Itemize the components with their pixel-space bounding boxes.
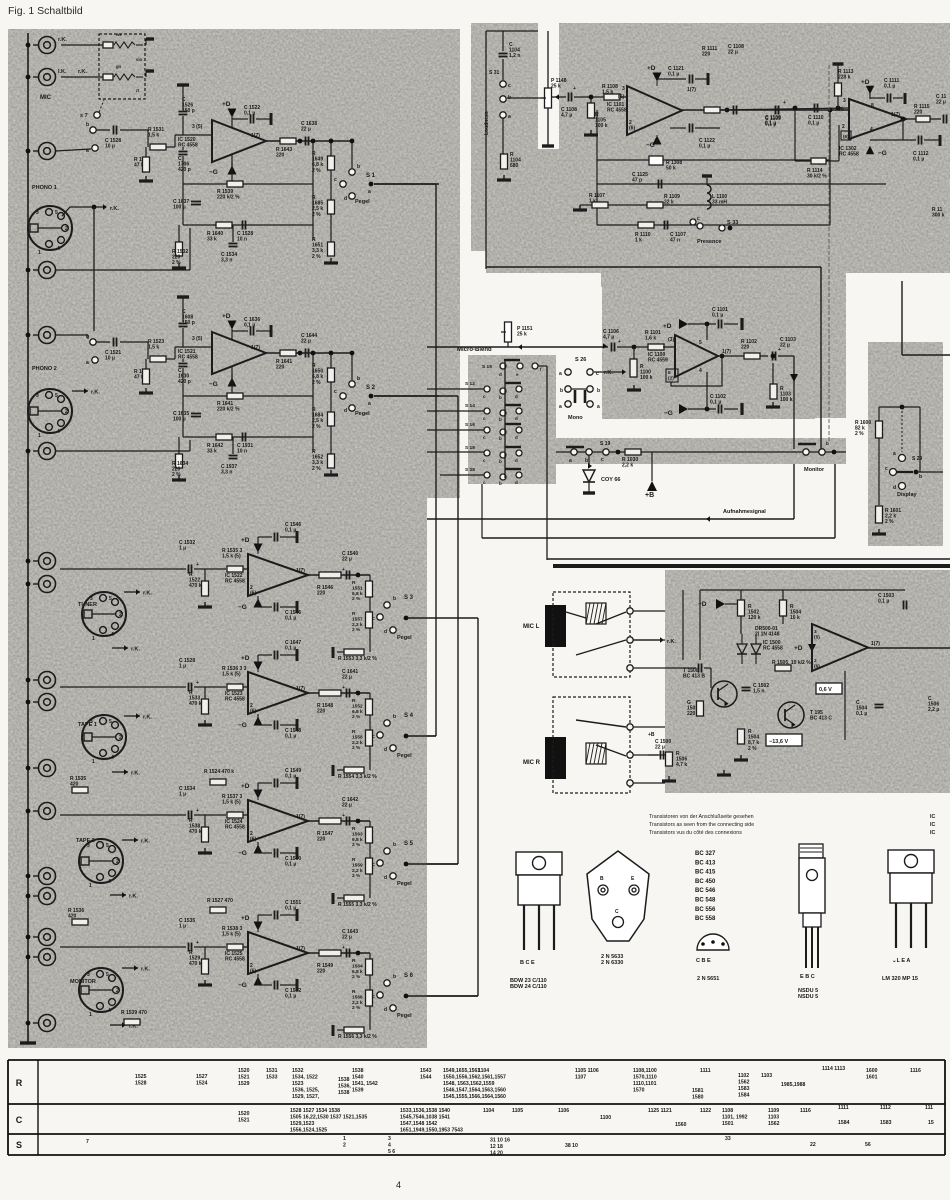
svg-text:2,2 k: 2,2 k (352, 868, 363, 874)
svg-text:2 %: 2 % (312, 380, 321, 386)
svg-text:3: 3 (843, 98, 846, 104)
svg-text:1546,1547,1564,1563,1560: 1546,1547,1564,1563,1560 (443, 1087, 506, 1093)
svg-text:+: + (342, 945, 345, 951)
svg-text:2: 2 (814, 658, 817, 664)
svg-text:33: 33 (725, 1136, 731, 1142)
svg-text:220: 220 (317, 591, 326, 597)
svg-text:22 µ: 22 µ (655, 745, 665, 751)
svg-text:1: 1 (92, 636, 95, 642)
svg-text:0,1 µ: 0,1 µ (285, 906, 296, 912)
svg-text:b: b (597, 388, 600, 394)
svg-text:S: S (16, 1140, 22, 1150)
svg-text:1,2 n: 1,2 n (509, 53, 520, 59)
svg-text:S 14: S 14 (465, 403, 475, 409)
svg-text:31 10 16: 31 10 16 (490, 1138, 510, 1144)
svg-text:25 k: 25 k (551, 84, 561, 90)
svg-text:220: 220 (317, 837, 326, 843)
svg-text:220: 220 (276, 153, 285, 159)
svg-text:470 k: 470 k (189, 961, 202, 967)
svg-text:1521: 1521 (238, 1074, 250, 1080)
svg-text:2 %: 2 % (312, 466, 321, 472)
svg-text:0,6 V: 0,6 V (819, 687, 832, 693)
svg-text:+: + (196, 808, 199, 814)
svg-text:8: 8 (871, 103, 874, 109)
svg-text:+D: +D (241, 655, 250, 662)
svg-text:1541, 1542: 1541, 1542 (352, 1081, 378, 1087)
svg-text:2,2 k: 2,2 k (352, 1000, 363, 1006)
svg-text:5: 5 (109, 719, 112, 725)
svg-text:a: a (597, 404, 600, 410)
svg-text:1533: 1533 (266, 1074, 278, 1080)
svg-text:(6): (6) (250, 709, 256, 715)
svg-text:gn: gn (116, 64, 122, 69)
svg-text:4: 4 (111, 755, 114, 761)
svg-text:R: R (352, 580, 356, 586)
svg-text:RC 4558: RC 4558 (178, 143, 198, 149)
svg-text:1562: 1562 (768, 1121, 780, 1127)
svg-text:C: C (16, 1115, 23, 1125)
svg-text:228 k: 228 k (838, 75, 851, 81)
svg-text:Pegel: Pegel (355, 411, 370, 417)
svg-text:220: 220 (914, 110, 923, 116)
svg-text:+: + (196, 562, 199, 568)
svg-text:470 k: 470 k (189, 829, 202, 835)
svg-text:1104: 1104 (478, 1068, 489, 1074)
svg-text:c: c (334, 389, 337, 395)
svg-text:S 29: S 29 (912, 456, 923, 462)
svg-text:1564: 1564 (352, 963, 363, 969)
svg-text:d: d (515, 394, 518, 399)
svg-text:1536,: 1536, (338, 1083, 351, 1089)
svg-text:PHONO 1: PHONO 1 (32, 185, 57, 191)
svg-text:RC 4558: RC 4558 (607, 108, 627, 114)
svg-text:(6): (6) (843, 134, 849, 139)
svg-text:3: 3 (36, 210, 39, 216)
svg-text:MONITOR: MONITOR (70, 979, 96, 985)
svg-text:d: d (893, 485, 896, 491)
svg-text:r.K.: r.K. (131, 647, 140, 653)
svg-text:0,1 µ: 0,1 µ (808, 121, 819, 127)
svg-text:2 %: 2 % (312, 424, 321, 430)
svg-text:22 µ: 22 µ (342, 675, 352, 681)
svg-text:4: 4 (57, 429, 60, 435)
svg-text:r.K.: r.K. (78, 69, 87, 75)
svg-text:Monitor: Monitor (804, 467, 825, 473)
svg-text:15: 15 (928, 1120, 934, 1126)
svg-text:0,1 µ: 0,1 µ (285, 862, 296, 868)
svg-text:2: 2 (119, 735, 122, 741)
svg-text:R: R (352, 698, 356, 704)
svg-text:33 k: 33 k (207, 237, 217, 243)
svg-text:4: 4 (388, 1142, 391, 1148)
svg-text:−G: −G (878, 150, 887, 157)
svg-text:a: a (569, 458, 572, 464)
svg-text:22 k: 22 k (664, 200, 674, 206)
svg-text:Pegel: Pegel (397, 881, 412, 887)
svg-text:1523: 1523 (292, 1081, 304, 1087)
svg-text:(6): (6) (629, 126, 635, 132)
svg-text:MIC L: MIC L (523, 624, 540, 630)
svg-text:1103: 1103 (768, 1114, 779, 1120)
svg-text:1527: 1527 (196, 1074, 208, 1080)
svg-text:2,2 k: 2,2 k (352, 622, 363, 628)
svg-text:S 19: S 19 (482, 364, 492, 370)
svg-text:3: 3 (87, 972, 90, 978)
svg-text:1521: 1521 (238, 1117, 250, 1123)
svg-text:0,1 µ: 0,1 µ (285, 994, 296, 1000)
svg-text:1111: 1111 (700, 1068, 711, 1074)
svg-text:22 µ: 22 µ (342, 557, 352, 563)
svg-text:1529, 1527,: 1529, 1527, (292, 1094, 320, 1100)
svg-text:1536, 1525,: 1536, 1525, (292, 1087, 320, 1093)
svg-text:5 6: 5 6 (388, 1149, 395, 1155)
svg-text:R: R (352, 857, 356, 863)
svg-text:d: d (499, 372, 502, 377)
svg-text:b: b (393, 714, 396, 720)
svg-text:0,1 µ: 0,1 µ (699, 144, 710, 150)
svg-text:Presence: Presence (697, 239, 721, 245)
svg-text:b: b (393, 596, 396, 602)
svg-text:3,3 n: 3,3 n (221, 470, 232, 476)
svg-text:(2): (2) (668, 375, 674, 381)
svg-text:b: b (499, 436, 502, 441)
svg-text:420 p: 420 p (178, 379, 191, 385)
svg-text:COY 66: COY 66 (601, 477, 620, 483)
svg-text:b: b (499, 459, 502, 464)
svg-text:B: B (600, 876, 604, 882)
svg-text:2 %: 2 % (352, 714, 361, 720)
svg-text:1529: 1529 (238, 1081, 250, 1087)
svg-text:r.K.: r.K. (667, 639, 676, 645)
svg-text:1580: 1580 (692, 1094, 704, 1100)
svg-text:BC 415: BC 415 (695, 870, 716, 876)
svg-text:3 (5): 3 (5) (192, 124, 203, 130)
svg-text:IC: IC (930, 822, 935, 828)
svg-text:BC 327: BC 327 (695, 851, 716, 857)
svg-text:1529,1523: 1529,1523 (290, 1121, 314, 1127)
svg-text:12 18: 12 18 (490, 1144, 503, 1150)
svg-text:R: R (352, 989, 356, 995)
svg-text:10 µ: 10 µ (105, 144, 115, 150)
svg-text:22 µ: 22 µ (342, 935, 352, 941)
svg-text:3: 3 (388, 1136, 391, 1142)
svg-text:0,1 µ: 0,1 µ (856, 711, 867, 717)
svg-text:2 %: 2 % (172, 472, 181, 478)
svg-text:r.K.: r.K. (110, 206, 119, 212)
svg-text:R 1556 3,3 k/2 %: R 1556 3,3 k/2 % (338, 1034, 377, 1040)
svg-text:5: 5 (55, 393, 58, 399)
svg-text:1581: 1581 (692, 1088, 704, 1094)
svg-text:111: 111 (925, 1105, 933, 1111)
svg-text:R: R (352, 729, 356, 735)
svg-text:4: 4 (699, 368, 702, 374)
svg-text:IC: IC (930, 830, 935, 836)
svg-text:6,8 k: 6,8 k (352, 837, 363, 843)
svg-text:47 n: 47 n (670, 238, 680, 244)
svg-text:220: 220 (317, 969, 326, 975)
svg-text:r.K.: r.K. (129, 894, 138, 900)
svg-text:I.K.: I.K. (58, 69, 67, 75)
svg-text:(3): (3) (668, 337, 674, 343)
svg-text:1584: 1584 (838, 1120, 850, 1126)
svg-text:a: a (368, 189, 371, 195)
svg-text:r.K.: r.K. (58, 37, 67, 43)
svg-text:BC 413 C: BC 413 C (810, 716, 832, 722)
svg-text:−G: −G (664, 410, 673, 417)
svg-text:10 k: 10 k (790, 615, 800, 621)
svg-text:1545,1555,1566,1564,1560: 1545,1555,1566,1564,1560 (443, 1094, 506, 1100)
svg-text:2: 2 (116, 859, 119, 865)
svg-text:Pegel: Pegel (397, 753, 412, 759)
svg-text:2 %: 2 % (352, 1005, 361, 1011)
svg-text:1563: 1563 (352, 831, 363, 837)
svg-text:R: R (16, 1078, 23, 1088)
svg-text:300 k: 300 k (932, 213, 945, 219)
svg-text:d: d (515, 458, 518, 463)
svg-text:S 19: S 19 (600, 441, 611, 447)
svg-text:1557: 1557 (352, 616, 363, 622)
svg-text:1525: 1525 (135, 1074, 147, 1080)
svg-text:1532: 1532 (292, 1068, 304, 1074)
svg-text:Transistors as seen from the c: Transistors as seen from the connecting … (649, 822, 754, 828)
svg-text:Transistoren von der Anschlußs: Transistoren von der Anschlußseite geseh… (649, 814, 754, 820)
svg-text:+D: +D (241, 915, 250, 922)
svg-text:S 18: S 18 (465, 445, 475, 451)
svg-text:1116: 1116 (910, 1068, 921, 1074)
svg-text:1110,1101: 1110,1101 (633, 1081, 657, 1087)
svg-text:1562: 1562 (738, 1079, 750, 1085)
svg-text:S 4: S 4 (404, 713, 414, 719)
svg-text:10 n: 10 n (237, 449, 247, 455)
svg-text:(6): (6) (250, 837, 256, 843)
svg-text:3: 3 (87, 843, 90, 849)
svg-text:2: 2 (842, 124, 845, 130)
svg-text:5: 5 (109, 596, 112, 602)
svg-text:1,5 k: 1,5 k (148, 345, 159, 351)
svg-text:Pegel: Pegel (397, 635, 412, 641)
svg-text:1544: 1544 (420, 1074, 432, 1080)
svg-text:Mono: Mono (568, 415, 583, 421)
svg-text:+: + (196, 940, 199, 946)
svg-text:1(7): 1(7) (871, 641, 880, 647)
svg-text:(6): (6) (250, 591, 256, 597)
svg-text:1(7): 1(7) (296, 568, 305, 574)
svg-text:4: 4 (396, 1180, 401, 1190)
svg-text:1570: 1570 (633, 1087, 645, 1093)
svg-text:b: b (919, 474, 922, 480)
svg-text:r.K.: r.K. (143, 591, 152, 597)
svg-text:3 (5): 3 (5) (192, 336, 203, 342)
svg-text:100 k: 100 k (780, 397, 793, 403)
svg-text:S 6: S 6 (404, 973, 414, 979)
svg-text:RC 4558: RC 4558 (225, 579, 245, 585)
svg-text:c: c (697, 216, 700, 222)
svg-text:d: d (515, 480, 518, 485)
svg-text:0,1 µ: 0,1 µ (884, 84, 895, 90)
svg-text:1125 1121: 1125 1121 (648, 1108, 672, 1114)
svg-text:+D: +D (647, 65, 656, 72)
svg-text:c: c (508, 83, 511, 89)
svg-text:−13,6 V: −13,6 V (769, 739, 788, 745)
svg-text:6,8 k: 6,8 k (352, 969, 363, 975)
svg-text:BC 548: BC 548 (695, 898, 716, 904)
svg-text:1(7): 1(7) (687, 87, 696, 93)
svg-text:a: a (559, 404, 562, 410)
svg-text:1(7): 1(7) (251, 133, 260, 139)
svg-text:+: + (573, 86, 576, 92)
svg-text:b: b (357, 376, 360, 382)
svg-text:22 µ: 22 µ (301, 339, 311, 345)
svg-text:2,2 k: 2,2 k (622, 463, 633, 469)
svg-text:1560: 1560 (675, 1122, 687, 1128)
svg-text:R: R (352, 826, 356, 832)
svg-text:2 %: 2 % (172, 260, 181, 266)
svg-text:1540: 1540 (352, 1074, 364, 1080)
svg-text:1(7): 1(7) (251, 345, 260, 351)
svg-text:r.K.: r.K. (131, 771, 140, 777)
svg-text:30 k/2 %: 30 k/2 % (807, 174, 827, 180)
svg-text:1111: 1111 (838, 1105, 849, 1111)
svg-text:BC 450: BC 450 (695, 879, 716, 885)
svg-text:100 µ: 100 µ (173, 417, 186, 423)
svg-text:0,1 µ: 0,1 µ (668, 72, 679, 78)
svg-text:22: 22 (810, 1142, 816, 1148)
svg-text:−G: −G (238, 982, 247, 989)
svg-text:4: 4 (108, 879, 111, 885)
svg-text:1112: 1112 (880, 1105, 891, 1111)
svg-text:2,2 µ: 2,2 µ (928, 707, 939, 713)
svg-text:2 %: 2 % (352, 627, 361, 633)
svg-text:S 16: S 16 (465, 422, 475, 428)
svg-text:1501: 1501 (722, 1121, 734, 1127)
svg-text:c: c (601, 457, 604, 463)
svg-text:C: C (615, 909, 619, 915)
svg-text:220: 220 (741, 345, 750, 351)
svg-text:−G: −G (209, 381, 218, 388)
svg-text:b: b (560, 388, 563, 394)
svg-text:220: 220 (702, 52, 711, 58)
svg-text:+B: +B (645, 492, 654, 499)
svg-text:1601: 1601 (866, 1074, 878, 1080)
svg-text:BC 546: BC 546 (695, 888, 716, 894)
svg-text:R: R (352, 958, 356, 964)
svg-text:10 n: 10 n (237, 237, 247, 243)
svg-text:33 mH: 33 mH (712, 200, 727, 206)
svg-text:0,1 µ: 0,1 µ (285, 616, 296, 622)
svg-text:2 %: 2 % (312, 254, 321, 260)
svg-text:1101, 1992: 1101, 1992 (722, 1114, 748, 1120)
svg-text:22 µ: 22 µ (342, 803, 352, 809)
svg-text:NSDU 5: NSDU 5 (798, 994, 818, 1000)
svg-text:1566: 1566 (352, 994, 363, 1000)
svg-text:1985,1988: 1985,1988 (781, 1082, 805, 1088)
svg-text:1583: 1583 (738, 1086, 750, 1092)
svg-text:a: a (893, 451, 896, 457)
svg-text:a: a (368, 401, 371, 407)
svg-text:5: 5 (55, 210, 58, 216)
svg-text:22 µ: 22 µ (780, 343, 790, 349)
svg-text:+D: +D (241, 783, 250, 790)
svg-text:C B E: C B E (696, 958, 711, 964)
svg-text:420 p: 420 p (178, 167, 191, 173)
svg-text:+D: +D (222, 101, 231, 108)
svg-text:+: + (618, 339, 621, 345)
svg-text:r.K.: r.K. (141, 839, 150, 845)
svg-text:2: 2 (65, 409, 68, 415)
svg-text:+: + (783, 100, 786, 106)
svg-text:1583: 1583 (880, 1120, 892, 1126)
svg-text:a: a (508, 114, 511, 120)
svg-text:1 k: 1 k (635, 238, 642, 244)
svg-text:2 %: 2 % (352, 745, 361, 751)
svg-text:1: 1 (89, 883, 92, 889)
svg-text:2 %: 2 % (855, 431, 864, 437)
svg-text:BC 413: BC 413 (695, 860, 716, 866)
svg-text:2 %: 2 % (352, 596, 361, 602)
svg-text:b: b (826, 441, 829, 446)
svg-text:120 k: 120 k (748, 615, 761, 621)
svg-text:6: 6 (668, 370, 671, 376)
svg-text:220: 220 (276, 365, 285, 371)
svg-text:22 µ: 22 µ (936, 100, 946, 106)
svg-text:+D: +D (241, 537, 250, 544)
svg-text:BDW 23 C/110: BDW 23 C/110 (510, 978, 547, 984)
svg-text:b: b (499, 481, 502, 486)
svg-text:b: b (86, 122, 89, 128)
svg-text:4,7 k: 4,7 k (676, 762, 687, 768)
svg-text:1550,1556,1562,1561,1557: 1550,1556,1562,1561,1557 (443, 1074, 506, 1080)
svg-text:NSDU 5: NSDU 5 (798, 988, 818, 994)
svg-text:1538: 1538 (338, 1077, 350, 1083)
svg-text:1114 1113: 1114 1113 (822, 1066, 845, 1072)
svg-text:1105: 1105 (512, 1108, 523, 1114)
svg-text:4: 4 (111, 632, 114, 638)
svg-text:1(7): 1(7) (296, 946, 305, 952)
svg-text:RC 4558: RC 4558 (178, 355, 198, 361)
svg-text:1559: 1559 (352, 862, 363, 868)
svg-text:1,5 k (5): 1,5 k (5) (222, 554, 241, 560)
svg-text:2: 2 (119, 612, 122, 618)
svg-text:1543: 1543 (420, 1068, 432, 1074)
svg-text:100 µ: 100 µ (173, 205, 186, 211)
svg-text:1528: 1528 (135, 1080, 147, 1086)
svg-text:1,5 n: 1,5 n (753, 689, 764, 695)
svg-text:PHONO 2: PHONO 2 (32, 366, 57, 372)
svg-text:IC: IC (930, 814, 935, 820)
svg-text:1556,1524,1525: 1556,1524,1525 (290, 1127, 327, 1133)
svg-text:⌄L E A: ⌄L E A (892, 958, 910, 964)
svg-text:220 k/2 %: 220 k/2 % (217, 407, 240, 413)
svg-text:7: 7 (86, 1139, 89, 1145)
svg-text:1105 1106: 1105 1106 (575, 1068, 599, 1074)
svg-text:−G: −G (238, 850, 247, 857)
svg-text:S 26: S 26 (575, 357, 586, 363)
svg-text:1531: 1531 (266, 1068, 278, 1074)
svg-text:d: d (515, 435, 518, 440)
svg-text:S 33: S 33 (727, 220, 738, 226)
svg-text:(5): (5) (618, 94, 624, 100)
svg-text:1584: 1584 (738, 1092, 750, 1098)
svg-text:4,7 µ: 4,7 µ (561, 113, 572, 119)
svg-text:1505 16,22,1530 1537 1521,1535: 1505 16,22,1530 1537 1521,1535 (290, 1114, 367, 1120)
svg-text:+: + (196, 680, 199, 686)
svg-text:MIC: MIC (40, 95, 52, 101)
svg-text:TUNER: TUNER (78, 602, 97, 608)
svg-text:0,1 µ: 0,1 µ (712, 313, 723, 319)
svg-text:Loudness: Loudness (484, 111, 490, 135)
svg-text:1: 1 (38, 433, 41, 439)
svg-text:BC 558: BC 558 (695, 916, 716, 922)
